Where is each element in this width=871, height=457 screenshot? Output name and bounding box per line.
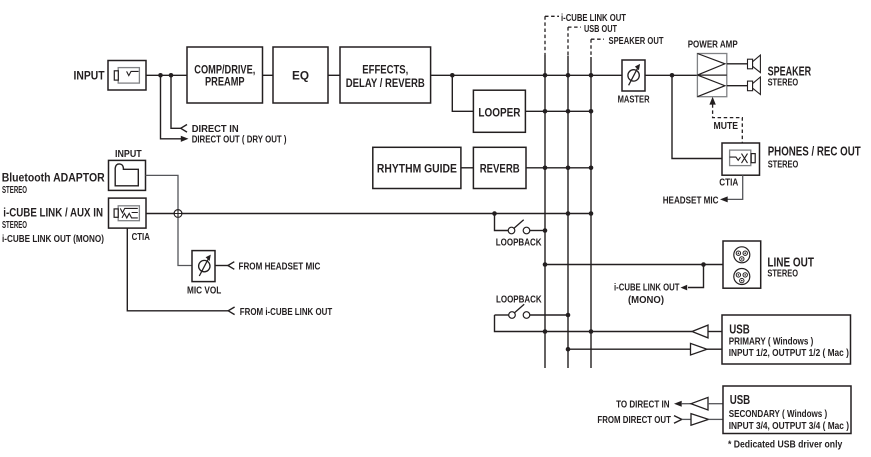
wire input to comp (146, 74, 187, 76)
svg-text:LOOPBACK: LOOPBACK (496, 238, 542, 249)
buffer triangle usb2 in (691, 414, 709, 426)
node dot (566, 73, 571, 78)
wire tri to usb1 box (708, 331, 722, 333)
svg-text:STEREO: STEREO (2, 185, 27, 196)
volume MASTER (618, 60, 651, 106)
svg-text:STEREO: STEREO (2, 220, 27, 231)
node dot (589, 73, 594, 78)
svg-text:SPEAKER OUT: SPEAKER OUT (609, 36, 664, 47)
bus i-CUBE LINK OUT (545, 13, 626, 368)
block Bluetooth ADAPTOR slot (109, 160, 146, 190)
speaker icon top (748, 55, 761, 73)
svg-text:STEREO: STEREO (767, 269, 798, 280)
wire tri to usb1 box (707, 348, 722, 350)
svg-text:CTIA: CTIA (132, 232, 150, 243)
svg-text:INPUT 1/2, OUTPUT 1/2 ( Mac ): INPUT 1/2, OUTPUT 1/2 ( Mac ) (729, 348, 849, 359)
svg-text:SPEAKER: SPEAKER (768, 63, 812, 78)
wire aux main line (146, 213, 591, 215)
svg-text:EFFECTS,: EFFECTS, (362, 63, 408, 77)
node dot (566, 313, 571, 318)
svg-text:DIRECT IN: DIRECT IN (192, 124, 239, 135)
bus SPEAKER OUT (591, 36, 664, 368)
wire master to power amp (645, 74, 697, 76)
node dot (566, 347, 571, 352)
mix node circle-plus (174, 210, 182, 218)
svg-text:USB: USB (729, 322, 750, 337)
amplifier POWER AMP (697, 54, 726, 97)
arrow open chevron FROM DIRECT OUT (674, 416, 682, 424)
block EFFECTS DELAY/REVERB (340, 47, 431, 103)
wire chevron to tri (682, 418, 691, 420)
switch LOOPBACK 2 (509, 304, 530, 318)
speaker icon bottom (748, 77, 761, 95)
volume MIC VOL (187, 251, 221, 297)
mute dashed line (713, 104, 743, 143)
svg-text:CTIA: CTIA (719, 177, 738, 188)
jack J3 i-CUBE LINK / AUX IN (109, 198, 147, 228)
bus USB OUT (568, 24, 617, 368)
node dot (589, 329, 594, 334)
buffer triangle usb1 in (691, 343, 708, 355)
svg-text:PHONES / REC OUT: PHONES / REC OUT (768, 143, 861, 158)
svg-text:REVERB: REVERB (480, 162, 520, 176)
node dot (566, 211, 571, 216)
arrow open chevron FROM i-CUBE LINK OUT (228, 307, 234, 315)
wire rhythm to reverb (461, 167, 474, 169)
wire direct-in branch (171, 75, 181, 128)
svg-text:FROM DIRECT OUT: FROM DIRECT OUT (597, 415, 671, 426)
wire amp to speaker bottom (727, 85, 748, 87)
svg-text:EQ: EQ (292, 69, 309, 83)
svg-text:USB OUT: USB OUT (584, 24, 617, 35)
arrow open chevron DIRECT IN (181, 125, 187, 133)
wire looper out (525, 110, 591, 112)
wire loopback1 branch (495, 214, 509, 231)
svg-text:USB: USB (730, 392, 751, 407)
arrow filled TO DIRECT IN (674, 401, 682, 407)
wire tri to usb2 box (708, 403, 723, 405)
wire from i-cube link out (127, 228, 228, 311)
svg-text:STEREO: STEREO (768, 159, 799, 170)
arrow filled DIRECT OUT (181, 136, 189, 142)
wire mix node to mic vol (178, 217, 192, 265)
node dot (589, 166, 594, 171)
node dot (543, 109, 548, 114)
arrow filled i-CUBE LINK OUT mono (681, 285, 688, 291)
svg-text:DELAY / REVERB: DELAY / REVERB (346, 76, 425, 90)
jack J2 PHONES / REC OUT (722, 143, 760, 175)
node dot mono tap (701, 262, 706, 267)
wire headset mic from phones (727, 175, 743, 199)
wire phones branch (672, 75, 722, 158)
block COMP/DRIVE PREAMP (187, 47, 263, 103)
node dot (589, 211, 594, 216)
wire usb record line (568, 348, 691, 350)
node dot (566, 109, 571, 114)
svg-text:DIRECT OUT ( DRY OUT ): DIRECT OUT ( DRY OUT ) (192, 135, 287, 146)
wire bluetooth to mix node (146, 175, 179, 209)
wire loopback2 stub (495, 314, 509, 316)
block REVERB (473, 147, 526, 188)
svg-text:INPUT 3/4, OUTPUT 3/4 ( Mac ): INPUT 3/4, OUTPUT 3/4 ( Mac ) (729, 421, 849, 432)
wire switch2 to bus (530, 314, 568, 316)
svg-text:MUTE: MUTE (714, 121, 739, 132)
wire amp to speaker top (727, 63, 748, 65)
block EQ (273, 47, 328, 103)
block USB PRIMARY (722, 315, 851, 364)
node dot (543, 166, 548, 171)
wire looper branch (452, 75, 473, 111)
wire comp to eq (263, 74, 274, 76)
wire eq to effects (328, 74, 340, 76)
svg-text:i-CUBE LINK OUT: i-CUBE LINK OUT (561, 13, 626, 24)
node dot (566, 166, 571, 171)
block USB SECONDARY (723, 386, 851, 434)
svg-text:LOOPBACK: LOOPBACK (496, 295, 542, 306)
buffer triangle usb2 out (691, 397, 708, 410)
node dot (169, 73, 174, 78)
block LOOPER (473, 90, 525, 132)
block RHYTHM GUIDE (373, 147, 461, 188)
node dot (543, 228, 548, 233)
wire usb playback line (495, 315, 693, 332)
wire switch1 to bus (530, 230, 545, 232)
wire direct-out branch (161, 75, 182, 139)
svg-text:INPUT: INPUT (74, 69, 106, 83)
node dot phones tap (670, 73, 675, 78)
node dot (158, 73, 163, 78)
svg-text:PREAMP: PREAMP (205, 75, 245, 89)
svg-text:* Dedicated USB driver only: * Dedicated USB driver only (728, 439, 843, 450)
arrow open chevron FROM HEADSET MIC (228, 262, 234, 270)
node dot (543, 262, 548, 267)
svg-text:HEADSET MIC: HEADSET MIC (663, 196, 719, 207)
arrow filled MUTE up (709, 97, 715, 105)
svg-text:i-CUBE LINK / AUX IN: i-CUBE LINK / AUX IN (3, 206, 103, 220)
svg-text:MIC VOL: MIC VOL (187, 285, 221, 296)
svg-text:TO DIRECT IN: TO DIRECT IN (616, 399, 669, 410)
node dot (589, 109, 594, 114)
wire reverb out (526, 167, 591, 169)
svg-text:STEREO: STEREO (768, 78, 799, 89)
svg-text:LINE OUT: LINE OUT (767, 255, 814, 270)
svg-text:POWER AMP: POWER AMP (688, 40, 738, 51)
svg-text:Bluetooth ADAPTOR: Bluetooth ADAPTOR (2, 171, 105, 185)
wire i-cube bus to line out (545, 264, 723, 266)
wire mono branch (688, 265, 704, 288)
node dot looper tap (450, 73, 455, 78)
svg-text:LOOPER: LOOPER (478, 105, 520, 119)
arrow filled HEADSET MIC left (720, 196, 728, 202)
jack J4 LINE OUT (723, 241, 761, 288)
svg-text:(MONO): (MONO) (628, 295, 664, 306)
svg-text:i-CUBE LINK OUT (MONO): i-CUBE LINK OUT (MONO) (2, 234, 104, 245)
svg-text:RHYTHM GUIDE: RHYTHM GUIDE (377, 162, 457, 176)
wire effects to master (431, 74, 622, 76)
node dot (543, 73, 548, 78)
svg-text:PRIMARY ( Windows ): PRIMARY ( Windows ) (729, 337, 814, 348)
buffer triangle usb1 out (692, 325, 708, 338)
wire arrow to tri (682, 403, 691, 405)
wire mic vol input (215, 265, 228, 267)
svg-text:INPUT: INPUT (115, 149, 142, 160)
jack J1 INPUT (108, 61, 146, 91)
wire tri to usb2 box (709, 418, 724, 420)
svg-text:FROM i-CUBE LINK OUT: FROM i-CUBE LINK OUT (240, 307, 332, 318)
svg-text:i-CUBE LINK OUT: i-CUBE LINK OUT (614, 283, 680, 294)
node dot loopback1 tap (492, 211, 497, 216)
node dot (543, 329, 548, 334)
svg-text:FROM HEADSET MIC: FROM HEADSET MIC (239, 262, 321, 273)
svg-text:MASTER: MASTER (618, 95, 651, 106)
switch LOOPBACK 1 (508, 220, 530, 234)
svg-text:SECONDARY ( Windows ): SECONDARY ( Windows ) (729, 409, 828, 420)
